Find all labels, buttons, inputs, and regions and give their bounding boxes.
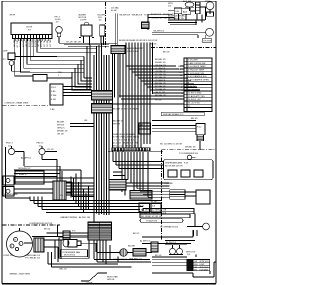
overload protector bbox=[34, 238, 44, 252]
junction block center bbox=[139, 123, 151, 134]
pin stubs bbox=[180, 66, 184, 99]
water lamp WTR bbox=[206, 2, 214, 10]
connector P10 block bbox=[50, 84, 63, 105]
svg-text:ICE: ICE bbox=[176, 11, 180, 13]
top right section water lamps bbox=[142, 2, 214, 43]
verticals descending to dispenser area bbox=[126, 66, 150, 151]
svg-text:6 NO DAMPER SIG: 6 NO DAMPER SIG bbox=[188, 75, 207, 78]
svg-text:NO 1/8 BK 1/2 GRN-YL 1/8: NO 1/8 BK 1/2 GRN-YL 1/8 bbox=[141, 210, 167, 212]
svg-text:TN-WH OR-BK RD-WH BU: TN-WH OR-BK RD-WH BU bbox=[112, 134, 136, 136]
switch wires bbox=[14, 160, 94, 197]
display board pin list text bbox=[188, 60, 209, 108]
svg-text:MOLD HTR 1/4: MOLD HTR 1/4 bbox=[113, 259, 128, 261]
svg-text:AL WH 1/2: AL WH 1/2 bbox=[166, 241, 177, 244]
svg-text:BK-WH: BK-WH bbox=[57, 122, 64, 124]
svg-text:BR2 1/8: BR2 1/8 bbox=[40, 40, 42, 48]
svg-text:1/2 HP: 1/2 HP bbox=[80, 19, 87, 21]
svg-text:OR 1/8: OR 1/8 bbox=[57, 134, 64, 136]
relay box tall bbox=[196, 2, 201, 14]
svg-text:BK WH OR YL GY RD BU VT: BK WH OR YL GY RD BU VT bbox=[112, 137, 140, 139]
svg-text:VT1 1/8: VT1 1/8 bbox=[37, 40, 39, 48]
connector P-12 bbox=[196, 124, 205, 135]
svg-text:4 FRZ-ICE TEMP: 4 FRZ-ICE TEMP bbox=[188, 70, 205, 72]
svg-text:DOOR: DOOR bbox=[26, 27, 33, 29]
pin strip P-7 bbox=[13, 35, 53, 39]
svg-text:AL WH 1/2: AL WH 1/2 bbox=[140, 240, 151, 243]
svg-text:1 2 3 4 5 6 7 8 9 10 11 12: 1 2 3 4 5 6 7 8 9 10 11 12 bbox=[112, 140, 136, 142]
divider vertical bbox=[161, 150, 163, 240]
dispenser wiring labels center bbox=[112, 134, 140, 148]
svg-text:DEF HTR 1/4: DEF HTR 1/4 bbox=[129, 259, 142, 261]
svg-text:VT-WH 1/8: VT-WH 1/8 bbox=[155, 80, 166, 82]
svg-text:2 AIR DISPNS SW: 2 AIR DISPNS SW bbox=[188, 62, 205, 65]
svg-text:BK 1/2: BK 1/2 bbox=[133, 233, 140, 235]
svg-text:WTR VLV: WTR VLV bbox=[200, 261, 210, 263]
svg-text:7 NO DAMPER OPEN: 7 NO DAMPER OPEN bbox=[188, 78, 209, 81]
svg-text:CABINET WIRING · AL WH · BK: CABINET WIRING · AL WH · BK bbox=[60, 216, 91, 219]
svg-text:BR-WH 1/8: BR-WH 1/8 bbox=[155, 83, 166, 85]
hatched band low-mid bbox=[109, 180, 126, 191]
svg-text:BK 1/4: BK 1/4 bbox=[44, 229, 51, 231]
connector J1 door board bbox=[11, 23, 52, 35]
svg-text:BK 1/8 WH 1/8 OR: BK 1/8 WH 1/8 OR bbox=[165, 165, 183, 167]
wire verticals mid drop bbox=[72, 56, 84, 85]
svg-text:12 AUX ATTY SIG: 12 AUX ATTY SIG bbox=[188, 95, 205, 98]
compressor motor bbox=[7, 231, 33, 257]
svg-text:BK 1/8: BK 1/8 bbox=[163, 52, 170, 54]
wiring table bbox=[187, 260, 210, 271]
svg-text:AUG: AUG bbox=[140, 205, 145, 208]
svg-text:115 VAC: 115 VAC bbox=[111, 7, 120, 10]
connector in-line lower bbox=[92, 104, 113, 114]
svg-text:GRN-YL: GRN-YL bbox=[57, 128, 66, 130]
svg-text:3 DOOR-FF TEMP: 3 DOOR-FF TEMP bbox=[188, 66, 206, 68]
svg-text:YL-WH 1/8: YL-WH 1/8 bbox=[155, 68, 166, 70]
svg-text:COMP: COMP bbox=[86, 283, 93, 285]
svg-text:AL-WH 1/2: AL-WH 1/2 bbox=[21, 156, 32, 159]
svg-text:2 BK: 2 BK bbox=[51, 91, 56, 93]
page border bbox=[2, 1, 216, 283]
svg-text:TN-WH 1/8: TN-WH 1/8 bbox=[155, 89, 166, 91]
svg-text:LT SHIELD: LT SHIELD bbox=[16, 174, 27, 176]
condenser fan motor bbox=[58, 225, 97, 258]
svg-text:OR-WH 1/8: OR-WH 1/8 bbox=[155, 65, 167, 67]
svg-text:11 SIG 1 GND: 11 SIG 1 GND bbox=[188, 93, 202, 95]
svg-text:WIRING - SIDE VIEW: WIRING - SIDE VIEW bbox=[10, 274, 30, 276]
svg-text:10 +5V REG: 10 +5V REG bbox=[188, 89, 200, 91]
display board U2 bbox=[180, 58, 212, 112]
svg-text:BKL 1/2: BKL 1/2 bbox=[60, 269, 68, 271]
svg-text:GY2 1/8: GY2 1/8 bbox=[28, 40, 30, 48]
svg-text:DR 2: DR 2 bbox=[140, 125, 146, 127]
connector in-line upper bbox=[92, 91, 113, 101]
scattered wire labels bbox=[11, 42, 177, 261]
svg-text:RD 1/8 BU-GY 1/8: RD 1/8 BU-GY 1/8 bbox=[168, 18, 184, 20]
svg-text:WH 1/8: WH 1/8 bbox=[57, 125, 65, 127]
verticals below grid bbox=[94, 240, 151, 264]
svg-text:TN2 1/8: TN2 1/8 bbox=[46, 40, 48, 48]
wires below connector bbox=[113, 54, 124, 152]
light shield box bbox=[15, 171, 44, 184]
svg-text:WH1 1/8: WH1 1/8 bbox=[16, 40, 18, 49]
svg-text:NO 1/4 GRN-YL 1/8 OR: NO 1/4 GRN-YL 1/8 OR bbox=[160, 143, 183, 145]
svg-text:PK 1/8: PK 1/8 bbox=[155, 100, 162, 102]
wire stubs door pins bbox=[16, 39, 49, 42]
lower right tables bbox=[140, 209, 216, 278]
svg-text:CER: CER bbox=[3, 51, 8, 53]
svg-text:WH-BK 1/8: WH-BK 1/8 bbox=[155, 62, 166, 64]
dispenser actuator icon bbox=[187, 155, 191, 159]
svg-text:ICE MKR: ICE MKR bbox=[200, 270, 209, 272]
lamp ellipse top bbox=[185, 2, 194, 7]
svg-text:GY-WH 1/8: GY-WH 1/8 bbox=[155, 71, 166, 73]
bottom thick border bbox=[2, 283, 216, 285]
lamp FRZ LT 2 bbox=[39, 148, 45, 154]
svg-text:OR3 1/8: OR3 1/8 bbox=[19, 40, 21, 48]
svg-text:BU-WH 1/8: BU-WH 1/8 bbox=[155, 77, 166, 79]
svg-text:CONSOLE - REAR VIEW: CONSOLE - REAR VIEW bbox=[5, 102, 29, 105]
side sensor component left edge bbox=[8, 53, 15, 60]
wires top right bbox=[168, 7, 210, 25]
svg-text:WH 1/8: WH 1/8 bbox=[113, 124, 121, 126]
node box below harness bbox=[33, 75, 47, 82]
aux box B bbox=[182, 9, 191, 15]
svg-text:PTC RELAY 1/4: PTC RELAY 1/4 bbox=[25, 257, 41, 260]
tech sheet boundary vertical bbox=[105, 2, 107, 48]
svg-text:DR HTR: DR HTR bbox=[204, 41, 212, 43]
cabinet harness staircase bbox=[14, 170, 94, 213]
svg-text:BK-WH 1/8 WH 1/8 OR-WH: BK-WH 1/8 WH 1/8 OR-WH bbox=[113, 108, 139, 110]
svg-text:GN-YL 1/8: GN-YL 1/8 bbox=[155, 92, 166, 94]
svg-text:DISP: DISP bbox=[200, 264, 205, 266]
svg-text:OR: OR bbox=[194, 267, 198, 269]
wire label column left of board bbox=[155, 59, 198, 120]
cabinet harness horizontal bundle bbox=[14, 170, 162, 213]
housing inner modules bbox=[168, 170, 177, 177]
component small right bbox=[100, 25, 105, 36]
connector auger delivery bbox=[111, 46, 125, 54]
cabinet connector grid bbox=[88, 222, 151, 264]
console section top-left bbox=[8, 23, 117, 91]
dispenser pin row bbox=[108, 148, 163, 152]
connector P-compressor bbox=[63, 231, 70, 240]
svg-text:BK-WH 1/8: BK-WH 1/8 bbox=[113, 121, 124, 123]
svg-text:BK-WH 1/8 WH-BK 1/8 OR 1/8 YL: BK-WH 1/8 WH-BK 1/8 OR 1/8 YL 1/8 GY 1/8 bbox=[119, 40, 158, 42]
heater box bbox=[203, 38, 211, 43]
svg-text:5 WTR DISP SW: 5 WTR DISP SW bbox=[188, 73, 204, 75]
staircase into dispenser bbox=[113, 152, 164, 176]
svg-text:9 5V DC: 9 5V DC bbox=[188, 86, 196, 88]
svg-text:GRN-YL 1/8 · TN 1/8 · OR: GRN-YL 1/8 · TN 1/8 · OR bbox=[112, 146, 137, 148]
svg-text:3 WH: 3 WH bbox=[51, 95, 57, 97]
svg-text:COMPRESSOR MOTOR: COMPRESSOR MOTOR bbox=[29, 223, 53, 225]
svg-text:TO AUX DS: TO AUX DS bbox=[146, 220, 158, 223]
bundle wires bbox=[94, 43, 109, 222]
connector stack lower bbox=[170, 190, 185, 200]
compressor section bbox=[3, 225, 132, 267]
main harness bundle center bbox=[50, 43, 113, 222]
svg-text:RD1 1/8: RD1 1/8 bbox=[31, 40, 33, 48]
svg-text:RD-WH 1/8: RD-WH 1/8 bbox=[155, 74, 166, 76]
svg-text:MOTOR 1/4: MOTOR 1/4 bbox=[64, 255, 76, 257]
svg-text:WTR: WTR bbox=[205, 1, 210, 3]
inline plug bbox=[151, 242, 158, 252]
svg-text:SABBATH SW: SABBATH SW bbox=[4, 193, 18, 196]
svg-text:AUX: AUX bbox=[183, 10, 188, 13]
svg-text:1 BK: 1 BK bbox=[50, 109, 55, 111]
svg-text:GN2 1/8: GN2 1/8 bbox=[34, 40, 36, 48]
power supply bundle 115VAC bbox=[111, 14, 125, 152]
wire L1 N pair bbox=[115, 14, 117, 46]
dispenser section right bbox=[109, 121, 216, 241]
bracket to console bbox=[148, 14, 174, 30]
inline connector bbox=[53, 181, 66, 200]
svg-text:OVERLOAD 1/4: OVERLOAD 1/4 bbox=[25, 254, 41, 257]
connector plug small bbox=[142, 22, 150, 29]
svg-text:60 HZ: 60 HZ bbox=[111, 10, 117, 12]
svg-text:13 SIG 2 +5V: 13 SIG 2 +5V bbox=[188, 99, 201, 101]
svg-text:YL1 1/8: YL1 1/8 bbox=[25, 40, 27, 48]
svg-text:TN: TN bbox=[194, 270, 197, 272]
svg-text:OR 1/8: OR 1/8 bbox=[150, 201, 157, 203]
svg-text:TO DISPENSER DS: TO DISPENSER DS bbox=[179, 153, 199, 155]
svg-text:1 VIO-WH: 1 VIO-WH bbox=[188, 60, 198, 62]
fan staircase to display board bbox=[113, 43, 200, 152]
svg-text:BK-WH 1/8: BK-WH 1/8 bbox=[155, 59, 166, 61]
svg-text:GY 1/2: GY 1/2 bbox=[47, 149, 54, 151]
svg-text:P-14 PLUG: P-14 PLUG bbox=[127, 51, 138, 53]
svg-text:BK-WH 1/8 · WH-BK 1/8 · TO 4: BK-WH 1/8 · WH-BK 1/8 · TO 4 bbox=[120, 14, 150, 16]
console labels bbox=[3, 14, 105, 105]
svg-text:CONDENSER FAN: CONDENSER FAN bbox=[62, 251, 80, 254]
dispenser housing bbox=[164, 160, 214, 180]
svg-text:BU2 1/8: BU2 1/8 bbox=[22, 40, 24, 48]
svg-text:PK1 1/8: PK1 1/8 bbox=[43, 40, 45, 48]
svg-text:BK-WH 1/2: BK-WH 1/2 bbox=[154, 30, 165, 32]
water valve solenoids bbox=[170, 248, 176, 254]
wire harness staircase from door board bbox=[15, 39, 41, 77]
svg-text:P-15 BK: P-15 BK bbox=[165, 183, 173, 185]
auger motor M1 bbox=[81, 25, 92, 36]
relay wires bbox=[32, 233, 88, 264]
wire bus under lamps bbox=[59, 43, 117, 90]
svg-text:WH-BK 1/8: WH-BK 1/8 bbox=[185, 146, 196, 148]
svg-text:AMERICAN UNIT: AMERICAN UNIT bbox=[127, 47, 144, 50]
svg-text:NO-C 1/8 · BK-WH 1/8 · WH: NO-C 1/8 · BK-WH 1/8 · WH bbox=[112, 143, 139, 145]
svg-text:BK-WH: BK-WH bbox=[128, 246, 135, 248]
svg-text:TO OPERATOR DS: TO OPERATOR DS bbox=[160, 226, 179, 229]
svg-text:MOLD FAN: MOLD FAN bbox=[107, 275, 118, 278]
branch wires left labels bbox=[70, 124, 94, 127]
door switch S1 bbox=[3, 176, 14, 185]
section divider bbox=[162, 149, 216, 151]
svg-text:P10 1: P10 1 bbox=[51, 87, 57, 89]
lamp FRZ LT 1 bbox=[8, 148, 14, 154]
console divider bbox=[3, 2, 216, 105]
lamp FF light bbox=[56, 27, 63, 34]
svg-text:DISPENSER ASM · P-14: DISPENSER ASM · P-14 bbox=[165, 161, 189, 164]
svg-text:BK1 1/8: BK1 1/8 bbox=[49, 40, 51, 48]
svg-text:BR-WH 1/8: BR-WH 1/8 bbox=[155, 95, 166, 97]
svg-text:8F 8F: 8F 8F bbox=[9, 14, 16, 16]
svg-text:COMP 1/4: COMP 1/4 bbox=[3, 255, 14, 257]
svg-text:WH-BK 1/8: WH-BK 1/8 bbox=[57, 131, 68, 133]
svg-text:GRILLE: GRILLE bbox=[107, 279, 115, 281]
drain pan switch ramp bbox=[81, 273, 107, 281]
svg-text:BK 1/8: BK 1/8 bbox=[155, 255, 162, 257]
pin labels under door connector bbox=[13, 40, 51, 49]
svg-text:AUX ICE: AUX ICE bbox=[183, 0, 192, 3]
svg-text:PK-WH 1/8: PK-WH 1/8 bbox=[155, 86, 166, 88]
svg-text:BK 1/8: BK 1/8 bbox=[150, 44, 157, 46]
svg-text:GY 1/8 · BK 1/8: GY 1/8 · BK 1/8 bbox=[66, 42, 81, 44]
lower lamp DR bbox=[206, 28, 214, 36]
divider right of console bbox=[151, 47, 216, 49]
aux box A bbox=[174, 8, 181, 14]
lines to stack bbox=[126, 152, 196, 198]
svg-text:BK2 1/8: BK2 1/8 bbox=[13, 40, 15, 48]
svg-text:4 GR: 4 GR bbox=[51, 99, 56, 101]
svg-text:WH-BK 1/8 OR-WH TN 1/8: WH-BK 1/8 OR-WH TN 1/8 bbox=[141, 213, 167, 215]
defrost components bottom middle bbox=[81, 245, 152, 281]
door switch S2 bbox=[3, 187, 14, 197]
freezer lights section bbox=[3, 146, 94, 200]
section divider bbox=[3, 224, 61, 226]
svg-text:WH: WH bbox=[194, 264, 198, 266]
svg-text:AUX SIG: AUX SIG bbox=[200, 266, 209, 269]
svg-text:NO 1/8 BK 1/2 OR 1/8: NO 1/8 BK 1/2 OR 1/8 bbox=[141, 216, 162, 218]
operator lamp bbox=[203, 223, 210, 230]
svg-text:14 +12 V DC: 14 +12 V DC bbox=[188, 103, 200, 105]
svg-text:ORN-WH 1/2: ORN-WH 1/2 bbox=[18, 168, 31, 170]
